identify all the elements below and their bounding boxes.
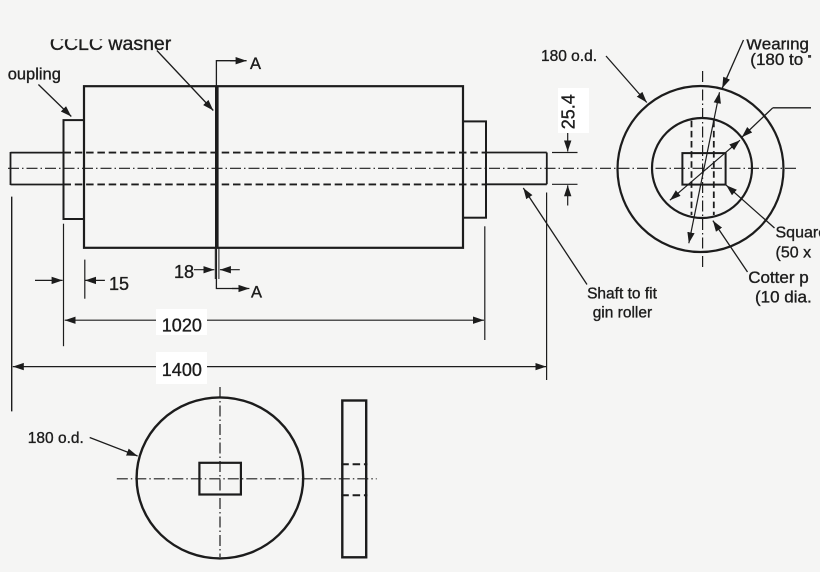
dim 25.4: extension lines right of shaft bbox=[552, 153, 578, 185]
dim 18 right arrow bbox=[220, 269, 240, 271]
extension line 1400 left bbox=[11, 197, 13, 412]
svg-text:A: A bbox=[251, 284, 262, 302]
svg-text:Square: Square bbox=[776, 224, 820, 241]
leader: coupling bbox=[38, 85, 71, 117]
leader: 180 od right view bbox=[606, 56, 647, 103]
dim line 1020 bbox=[65, 319, 484, 321]
svg-text:gin roller: gin roller bbox=[593, 305, 652, 322]
crop band hiding tops of clipped labels bbox=[0, 0, 820, 39]
leader: cotter pin label bbox=[713, 221, 748, 272]
washer side view rectangle bbox=[342, 401, 366, 558]
dim 18 left arrow bbox=[194, 269, 214, 271]
leader: wearing strip bbox=[722, 40, 743, 88]
washer thick section line bbox=[215, 86, 219, 248]
leader: shaft to fit gin roller bbox=[523, 188, 587, 285]
outer diameter double arrow bbox=[689, 92, 720, 243]
drum body rectangle bbox=[84, 86, 463, 248]
right journal rectangle bbox=[463, 121, 486, 217]
washer side view hidden line lower bbox=[341, 494, 367, 496]
vertical centre line bottom view bbox=[219, 387, 221, 557]
white box for 1400 label bbox=[156, 352, 207, 384]
dim 15 right arrow bbox=[85, 279, 105, 281]
horizontal centre line bottom view bbox=[117, 478, 377, 480]
section line A bottom bbox=[216, 248, 240, 289]
inner diameter double arrow bbox=[670, 140, 740, 200]
leader: square hole label bbox=[726, 185, 774, 228]
node hidden shaft line upper (dashed) bbox=[64, 152, 487, 154]
svg-text:1400: 1400 bbox=[162, 360, 202, 380]
svg-text:oupling: oupling bbox=[8, 66, 61, 84]
wire: horizontal centre line of shaft bbox=[8, 167, 799, 169]
outer circle 180 od bbox=[618, 86, 784, 252]
extension line 1400 right bbox=[546, 193, 548, 381]
white box for 25.4 label bbox=[558, 88, 589, 133]
square hole bbox=[682, 153, 725, 185]
svg-text:A: A bbox=[250, 55, 261, 73]
inner circle bbox=[652, 118, 752, 218]
white box for 1020 label bbox=[156, 309, 207, 335]
svg-text:1020: 1020 bbox=[162, 316, 202, 336]
coupling boss rectangle bbox=[64, 120, 85, 219]
svg-text:(50 x: (50 x bbox=[776, 245, 812, 262]
extension line drum-left (for 15) bbox=[84, 260, 86, 299]
section line A top bbox=[216, 61, 238, 86]
svg-text:15: 15 bbox=[109, 274, 129, 294]
svg-text:18: 18 bbox=[174, 262, 194, 282]
svg-text:(180 to: (180 to bbox=[750, 50, 803, 69]
washer square hole bbox=[199, 463, 241, 495]
washer side view hidden line upper bbox=[341, 463, 367, 465]
cotter pin hidden line right bbox=[713, 121, 715, 215]
left shaft bbox=[11, 152, 64, 185]
vertical centre line of end view bbox=[702, 71, 704, 267]
svg-text:(10 dia.: (10 dia. bbox=[755, 288, 812, 307]
extension lines for 18 dim bbox=[215, 249, 219, 280]
svg-text:Shaft to fit: Shaft to fit bbox=[587, 286, 657, 303]
extension line boss-left (for 15 and 1020) bbox=[63, 224, 65, 347]
leader: 180 od bottom view bbox=[90, 438, 138, 457]
extension line journal-right (for 1020) bbox=[484, 226, 486, 340]
dim line 1400 bbox=[13, 366, 547, 368]
leader: unnamed right label bbox=[773, 107, 811, 109]
dim 25.4 down arrow bbox=[567, 128, 569, 152]
dim 25.4 up arrow bbox=[567, 185, 569, 205]
svg-text:180 o.d.: 180 o.d. bbox=[541, 48, 597, 65]
speck of clipped digit 1 bbox=[808, 55, 811, 57]
node hidden shaft line lower (dashed) bbox=[64, 183, 487, 185]
cotter pin hidden line left bbox=[691, 121, 693, 215]
svg-text:180 o.d.: 180 o.d. bbox=[28, 430, 84, 447]
svg-text:25.4: 25.4 bbox=[559, 94, 579, 129]
leader: CCLC washer bbox=[157, 51, 213, 111]
washer front circle bbox=[137, 397, 304, 558]
right shaft bbox=[486, 153, 547, 185]
dim 15 left arrow bbox=[35, 279, 63, 281]
svg-text:Cotter p: Cotter p bbox=[748, 268, 808, 287]
